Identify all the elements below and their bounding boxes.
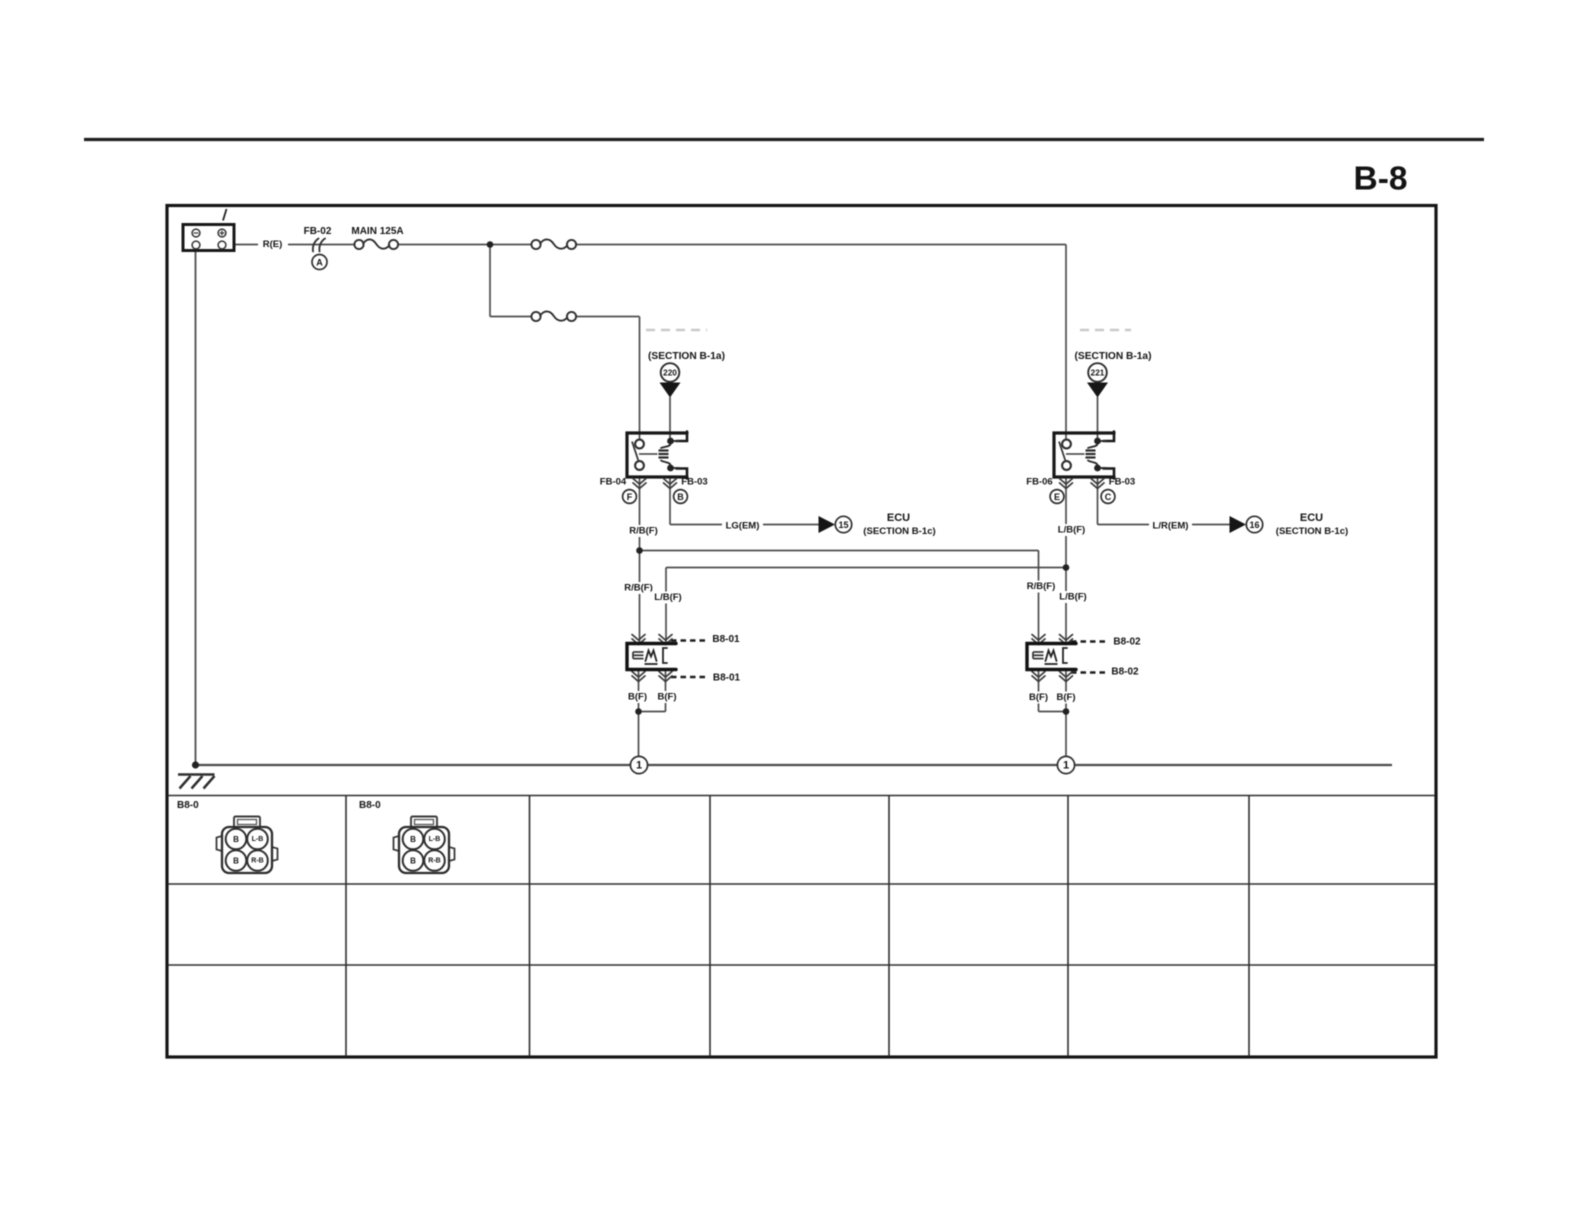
svg-text:15: 15	[838, 520, 848, 530]
svg-text:B: B	[233, 835, 239, 844]
svg-text:FB-03: FB-03	[1109, 476, 1135, 487]
svg-text:R/B(F): R/B(F)	[1027, 581, 1056, 592]
svg-text:L/B(F): L/B(F)	[654, 592, 681, 603]
svg-text:C: C	[1105, 492, 1112, 502]
svg-text:(SECTION B-1a): (SECTION B-1a)	[1075, 351, 1152, 362]
svg-text:220: 220	[663, 368, 677, 377]
svg-text:FB-06: FB-06	[1026, 476, 1052, 487]
svg-text:B8-02: B8-02	[1113, 637, 1141, 648]
svg-text:R-B: R-B	[251, 857, 263, 864]
svg-text:B(F): B(F)	[1057, 692, 1076, 703]
svg-text:B(F): B(F)	[628, 692, 647, 703]
svg-text:B8-02: B8-02	[1111, 667, 1139, 678]
svg-text:FB-04: FB-04	[600, 476, 627, 487]
svg-text:MAIN 125A: MAIN 125A	[351, 226, 403, 237]
svg-text:R/B(F): R/B(F)	[624, 583, 653, 594]
svg-text:R/B(F): R/B(F)	[629, 526, 658, 537]
svg-text:A: A	[316, 257, 323, 267]
svg-text:B: B	[677, 492, 684, 502]
svg-text:F: F	[627, 492, 633, 502]
svg-text:B(F): B(F)	[658, 692, 677, 703]
svg-text:FB-02: FB-02	[304, 226, 332, 237]
svg-text:B8-0: B8-0	[177, 800, 199, 811]
svg-text:B-8: B-8	[1354, 161, 1408, 198]
svg-text:B8-01: B8-01	[713, 673, 741, 684]
svg-text:L-B: L-B	[252, 836, 264, 843]
svg-text:R-B: R-B	[428, 857, 440, 864]
svg-text:B(F): B(F)	[1029, 692, 1048, 703]
svg-text:1: 1	[636, 759, 642, 771]
svg-text:L/B(F): L/B(F)	[1059, 592, 1086, 603]
svg-text:L/R(EM): L/R(EM)	[1153, 521, 1189, 532]
svg-text:(SECTION B-1c): (SECTION B-1c)	[1276, 526, 1349, 537]
svg-text:ECU: ECU	[887, 512, 910, 524]
svg-text:R(E): R(E)	[263, 239, 283, 250]
svg-text:16: 16	[1249, 520, 1259, 530]
svg-text:L/B(F): L/B(F)	[1058, 525, 1085, 536]
svg-text:B: B	[410, 856, 416, 865]
svg-text:B: B	[410, 835, 416, 844]
svg-text:B8-0: B8-0	[359, 800, 381, 811]
svg-text:(SECTION B-1a): (SECTION B-1a)	[648, 351, 725, 362]
svg-text:221: 221	[1091, 368, 1105, 377]
svg-text:B: B	[233, 856, 239, 865]
svg-text:LG(EM): LG(EM)	[726, 521, 760, 532]
svg-text:ECU: ECU	[1300, 512, 1323, 524]
svg-text:B8-01: B8-01	[712, 634, 740, 645]
svg-text:FB-03: FB-03	[681, 476, 707, 487]
svg-text:(SECTION B-1c): (SECTION B-1c)	[863, 526, 936, 537]
svg-text:1: 1	[1063, 759, 1069, 771]
svg-text:L-B: L-B	[429, 836, 441, 843]
svg-text:E: E	[1054, 492, 1060, 502]
